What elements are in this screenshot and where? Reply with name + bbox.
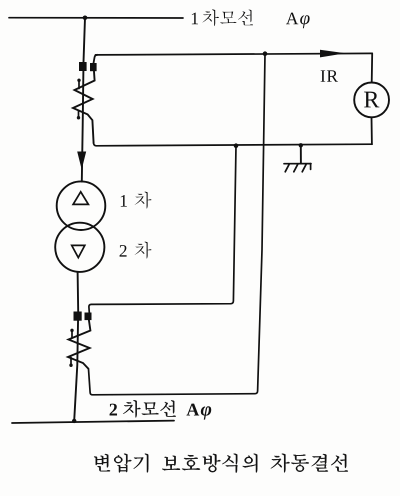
CT1 secondary polarity mark (right square) xyxy=(90,63,97,71)
wire: secondary feeder from transformer down to 2-cha bus xyxy=(74,272,78,421)
caption: transformer protection differential connection xyxy=(94,454,110,471)
CT2 winding stroke stub (upper) xyxy=(71,330,73,339)
label: phase A-phi (top) xyxy=(286,13,298,25)
CT1 winding stroke stub (lower) xyxy=(78,111,80,119)
label: R inside relay circle xyxy=(364,92,379,108)
junction: bottom rail to earth connection xyxy=(299,143,303,147)
label: 2 cha (transformer secondary winding) xyxy=(120,245,127,257)
junction: bottom rail to inner differential lead xyxy=(234,143,239,148)
arrow: load-current direction arrow on primary feeder xyxy=(77,152,86,170)
wire: earthing stub from bottom rail xyxy=(300,145,302,163)
CT2 winding stroke stub (lower) xyxy=(70,358,72,367)
wire: CT1 secondary bottom rail (return) xyxy=(94,143,372,146)
bus: 1-cha (primary) bus line xyxy=(9,17,183,19)
label: 2 cha-mo-seon A-phi (secondary bus name) xyxy=(110,404,117,416)
label: IR relay current xyxy=(321,70,326,81)
arrow: IR current direction arrowhead xyxy=(320,50,346,58)
wire: primary feeder from bus down to transformer xyxy=(82,18,85,182)
label: 1 cha-mo-seon (primary bus name) xyxy=(192,13,198,25)
junction: primary feeder tap on 1-cha bus xyxy=(83,15,88,20)
CT1 winding stroke stub (upper) xyxy=(78,80,80,89)
CT2 primary polarity mark (left square) xyxy=(74,312,82,321)
transformer T primary winding (1-cha, delta) xyxy=(57,181,106,230)
inverted delta symbol inside secondary winding xyxy=(72,245,85,257)
delta symbol inside primary winding xyxy=(73,192,88,205)
wire: inner differential lead (CT2 top lead to bottom rail) xyxy=(89,146,236,313)
bus: 2-cha (secondary) bus line xyxy=(12,421,174,423)
CT2 secondary polarity mark (right square) xyxy=(85,313,92,321)
wire: outer differential lead (top rail junction down to CT2 return lead) xyxy=(88,54,265,395)
transformer T secondary winding (2-cha, wye/inverted delta) xyxy=(55,223,104,272)
wire: CT1 secondary top rail to relay R xyxy=(96,53,373,55)
ground symbol xyxy=(284,164,311,172)
wire: relay branch drop from top rail xyxy=(371,53,374,82)
wire: relay branch to bottom rail xyxy=(371,117,373,144)
relay R (differential relay coil) xyxy=(354,83,389,118)
CT2 secondary winding zigzag xyxy=(68,320,90,369)
wire: CT1 secondary top lead to relay loop xyxy=(94,55,98,63)
junction: secondary feeder on 2-cha bus xyxy=(72,419,76,423)
label: 1 cha (transformer primary winding) xyxy=(121,195,127,207)
junction: top rail to outer differential lead xyxy=(263,51,268,56)
CT1 primary polarity mark (left square) xyxy=(79,62,87,71)
CT1 secondary winding zigzag xyxy=(73,71,95,143)
